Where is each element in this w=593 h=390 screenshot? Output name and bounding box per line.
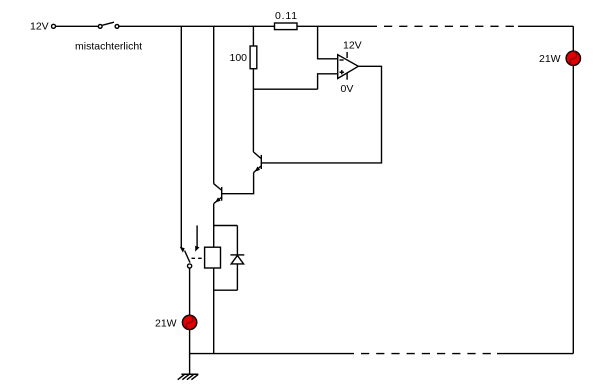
wire resistor to dashed section (297, 25, 377, 27)
svg-text:21W: 21W (539, 53, 561, 65)
contact arrow right (195, 246, 199, 252)
svg-text:0.11: 0.11 (275, 10, 298, 22)
wire relay coil to bottom bus (213, 268, 215, 354)
wire R1 bottom to Q1 collector (252, 69, 254, 152)
transistor Q2 (214, 184, 222, 190)
wire op-amp minus branch from rail (318, 26, 338, 59)
svg-text:mistachterlicht: mistachterlicht (75, 41, 142, 53)
wire to op-amp plus input (lower) (253, 88, 317, 90)
wire op-amp plus branch (318, 74, 338, 89)
wire diode bottom connection (214, 289, 238, 291)
resistor 100 (250, 46, 257, 69)
wire pivot down to lamp L1 (189, 268, 191, 374)
wire bottom solid right (497, 353, 573, 355)
switch S1 mistachterlicht (98, 25, 102, 29)
diode D1 (236, 226, 238, 255)
wire op-amp output (262, 66, 382, 163)
svg-text:12V: 12V (30, 21, 49, 33)
wire Q1 emitter to Q2 base (222, 173, 254, 194)
resistor 0.11 (275, 23, 298, 30)
relay switch arm (185, 251, 190, 263)
wire dashed top (to rear lamp) (377, 25, 518, 27)
op-amp U1 (338, 55, 359, 79)
wire diode top connection (214, 225, 238, 227)
wire relay contact stub right (196, 225, 198, 247)
svg-text:21W: 21W (155, 318, 177, 330)
lamp L2 21W (rear) (566, 51, 580, 65)
contact arrow left (180, 247, 185, 253)
wire Q2 emitter down (213, 203, 215, 247)
svg-text:0V: 0V (341, 83, 354, 95)
svg-text:100: 100 (230, 52, 248, 64)
lamp L1 21W (mist) (182, 315, 196, 329)
wire bottom dashed (354, 353, 497, 355)
svg-text:12V: 12V (343, 39, 362, 51)
wire bottom bus solid left (190, 353, 355, 355)
terminal 12V (52, 24, 56, 28)
wire R1 branch (from 12V rail) (252, 26, 254, 46)
wire switch to resistor 0.11 (top 12V rail) (119, 25, 274, 27)
wire right branch down through lamp (572, 26, 574, 353)
wire terminal to switch (56, 25, 98, 27)
ground (181, 373, 198, 375)
mechanical link dashed (relay to contact) (192, 257, 205, 259)
wire dashed end to top right corner (518, 25, 573, 27)
relay switch pivot terminal (188, 264, 192, 268)
relay coil K1 (205, 247, 221, 268)
wire Q2 collector branch (from 12V rail) (213, 26, 215, 183)
transistor Q1 (253, 152, 261, 159)
wire relay contact fixed left (from 12V rail) (180, 26, 182, 248)
